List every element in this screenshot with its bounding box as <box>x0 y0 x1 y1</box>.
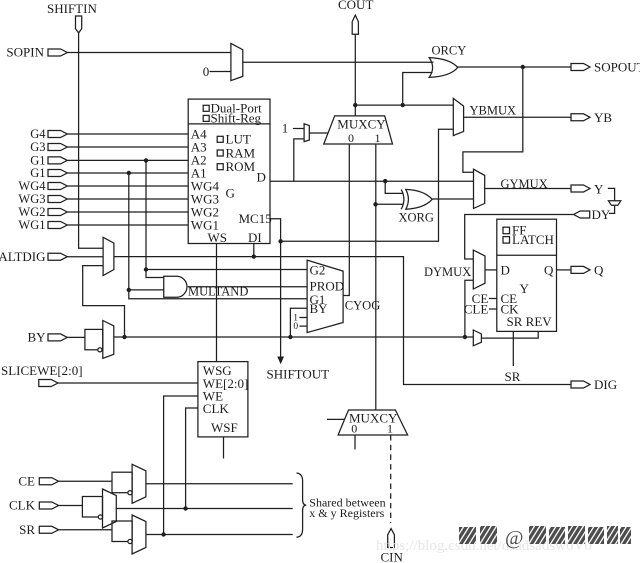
svg-text:GYMUX: GYMUX <box>501 177 548 191</box>
DY input arrow <box>574 211 590 218</box>
SOPOUT output arrow <box>571 64 590 71</box>
wire SOPIN to mux <box>67 52 231 54</box>
wire COUT to MUXCY <box>354 34 356 116</box>
bubble CE inverter <box>128 491 132 495</box>
wire G1 (A2 row) <box>67 159 188 161</box>
svg-text:ALTDIG: ALTDIG <box>0 249 46 264</box>
svg-text:CE: CE <box>18 473 35 488</box>
CIN input arrow <box>388 529 395 548</box>
wire WG3 <box>67 198 188 200</box>
wire BY to inverter box <box>67 336 85 338</box>
wire ORCY to SOPOUT <box>458 66 572 68</box>
wire SOPOUT node down to GYMUX top input <box>463 67 523 172</box>
wire CYOG BY input <box>290 308 307 337</box>
bracket Y to DY <box>608 188 615 200</box>
wire REV mux to register <box>481 331 538 338</box>
svg-text:G: G <box>226 186 235 201</box>
mux CE polarity <box>132 464 146 503</box>
checkbox LUT <box>217 136 223 142</box>
muxcy MUXCY lower <box>338 410 408 435</box>
stub MUXCY lower select <box>327 418 345 420</box>
svg-text:SHIFTIN: SHIFTIN <box>47 1 97 16</box>
inverter box CLK <box>82 497 102 518</box>
svg-text:WS: WS <box>208 230 228 245</box>
bubble SR inverter <box>128 539 132 543</box>
register Y box <box>497 219 557 331</box>
svg-text:G2: G2 <box>310 263 326 278</box>
stub CYOG select 0 <box>299 325 307 327</box>
wire Q output <box>557 269 572 271</box>
Y output arrow <box>571 185 590 192</box>
wire DYMUX to D input <box>485 269 497 271</box>
wire carry chain vertical <box>375 144 377 410</box>
wire D output of G <box>270 180 474 182</box>
divider in register box <box>497 254 557 256</box>
xor-gate XORG input arc <box>401 189 404 209</box>
svg-text:DIG: DIG <box>594 377 617 392</box>
wire SR shared line <box>146 534 293 536</box>
svg-text:@: @ <box>505 527 523 549</box>
wire SHIFTOUT vertical <box>280 241 282 356</box>
mux carry-select small <box>304 124 309 142</box>
svg-text:Q: Q <box>594 262 604 277</box>
svg-text:MC15: MC15 <box>239 211 272 226</box>
node BY loop tap <box>122 335 126 339</box>
stub MUXCY lower 0 input <box>354 435 356 449</box>
mux SOPIN/0 <box>231 43 243 80</box>
node CYOG BY tap <box>288 335 292 339</box>
svg-text:BY: BY <box>27 330 46 345</box>
checkbox LATCH <box>503 237 510 244</box>
svg-text:PROD: PROD <box>310 278 345 293</box>
buffer symbol in Y-DY bracket <box>608 201 620 206</box>
tick CE <box>489 298 497 300</box>
wire DIG line <box>114 257 571 385</box>
checkbox RAM <box>217 150 223 156</box>
watermark blocks dark <box>459 526 631 549</box>
ALTDIG input arrow <box>48 253 67 260</box>
inverter box CE <box>112 472 132 493</box>
node carry to XORG tap <box>373 202 377 206</box>
svg-text:SOPIN: SOPIN <box>6 45 44 60</box>
wire WE input from SR line <box>164 396 198 535</box>
wire YBMUX to YB <box>464 116 571 118</box>
CLK input arrow <box>39 502 58 509</box>
svg-text:1: 1 <box>375 131 381 145</box>
wire D tap to small mux <box>294 139 304 181</box>
WG1 input arrow <box>48 222 67 229</box>
mux SR polarity <box>132 515 146 554</box>
node DY/BY REV tap <box>463 335 467 339</box>
mux CLK polarity <box>103 489 117 528</box>
svg-text:G1: G1 <box>30 166 45 180</box>
wire BY line to REV mux <box>114 336 474 338</box>
mux BY polarity <box>103 321 114 359</box>
WG4 input arrow <box>48 183 67 190</box>
or-gate ORCY <box>429 58 458 78</box>
svg-text:0: 0 <box>348 131 354 145</box>
wire GYMUX to Y <box>485 188 571 190</box>
wire SLICEWE to WSG <box>58 382 198 384</box>
mux YBMUX <box>453 98 463 135</box>
G1 input arrow (A2 row) <box>48 157 67 164</box>
wire CE shared line <box>146 483 293 485</box>
node SOPOUT branch <box>521 65 525 69</box>
svg-text:CLE: CLE <box>464 301 489 316</box>
checkbox Dual-Port <box>203 105 209 111</box>
COUT output arrow <box>352 15 358 34</box>
inverter box SR <box>112 521 132 542</box>
mux REV small <box>473 330 481 346</box>
mux GYMUX <box>474 169 485 208</box>
G4 input arrow <box>48 131 67 138</box>
DIG output arrow <box>571 381 590 388</box>
bracket DY side <box>609 205 615 213</box>
wire WG4 <box>67 185 188 187</box>
wire G4 <box>67 133 188 135</box>
wire SR stub below register <box>512 331 514 366</box>
WG3 input arrow <box>48 196 67 203</box>
divider in G box <box>188 123 270 125</box>
SHIFTIN input arrow <box>76 16 82 33</box>
stub CYOG select 1 <box>299 317 307 319</box>
wire CLK input from CLK line <box>186 408 198 509</box>
wire G2 branch to MULTAND <box>146 270 164 278</box>
wire WS to WSG <box>216 244 218 362</box>
CE input arrow <box>39 478 58 485</box>
svg-text:CLK: CLK <box>9 498 36 513</box>
svg-text:SOPOUT: SOPOUT <box>594 60 640 75</box>
wire const 1 to small mux <box>293 128 304 130</box>
wsg WSG box <box>198 362 248 437</box>
svg-text:COUT: COUT <box>338 0 373 12</box>
svg-text:YBMUX: YBMUX <box>470 103 517 117</box>
svg-text:CYOG: CYOG <box>345 299 380 313</box>
node G1 line A2 tap <box>144 158 148 162</box>
svg-text:WG3: WG3 <box>18 192 45 206</box>
wire branch up to ORCY input <box>403 73 433 106</box>
node ORCY input tap <box>401 103 405 107</box>
Q output arrow <box>571 266 590 273</box>
wire G2 line to CYOG <box>146 160 307 269</box>
checkbox Shift-Reg <box>203 115 209 121</box>
mux ALTDIG/SHIFTIN/BY <box>103 237 114 275</box>
wire SHIFTIN to ALTDIG mux <box>79 33 104 248</box>
stub WSF <box>223 437 225 459</box>
node SR tap for WE <box>161 532 165 536</box>
arrowhead SHIFTOUT <box>277 357 284 365</box>
wire ALTDIG to mux <box>67 256 103 258</box>
wire BY loop to ALTDIG mux <box>83 266 125 337</box>
bubble CLK inverter <box>98 515 102 519</box>
wire XORG bottom input from carry <box>376 203 404 205</box>
wire MUXCY 0 input from CYOG <box>343 144 349 296</box>
svg-text:MUXCY: MUXCY <box>337 117 386 132</box>
mux DYMUX <box>473 250 485 289</box>
wire mux to ORCY <box>243 61 434 63</box>
wire G1 (A1 row) <box>67 172 188 174</box>
svg-text:BY: BY <box>310 301 329 316</box>
svg-text:D: D <box>257 170 266 185</box>
wire CE to inverter box <box>59 480 112 482</box>
svg-text:SR REV: SR REV <box>507 314 553 329</box>
node CLK tap <box>183 506 187 510</box>
wire BY/DY node to DYMUX bottom input <box>465 280 473 337</box>
SR input arrow <box>39 526 58 533</box>
wire MULTAND to CYOG PROD <box>188 286 307 288</box>
svg-text:DYMUX: DYMUX <box>424 265 471 279</box>
svg-text:SR: SR <box>505 369 521 384</box>
svg-text:WG4: WG4 <box>18 179 46 193</box>
brace shared-registers <box>297 473 307 537</box>
node G1 branch <box>127 288 131 292</box>
svg-text:WG1: WG1 <box>18 218 45 232</box>
SLICEWE input arrow <box>39 380 58 387</box>
xor-gate XORG <box>406 189 432 209</box>
svg-text:SLICEWE[2:0]: SLICEWE[2:0] <box>1 363 83 378</box>
svg-text:0: 0 <box>351 422 357 436</box>
svg-text:DI: DI <box>248 230 262 245</box>
wire XORG to GYMUX <box>432 198 473 200</box>
and-gate MULTAND <box>164 276 187 297</box>
node D to XORG tap <box>383 179 387 183</box>
svg-text:1: 1 <box>387 422 393 436</box>
svg-text:0: 0 <box>203 64 210 79</box>
svg-text:CLK: CLK <box>203 401 230 416</box>
SOPIN input arrow <box>48 49 67 56</box>
wire carry branch to YBMUX <box>355 104 453 106</box>
svg-text:D: D <box>501 262 510 277</box>
svg-text:WG2: WG2 <box>18 205 45 219</box>
WG2 input arrow <box>48 209 67 216</box>
muxcy MUXCY upper <box>324 116 393 144</box>
svg-text:XORG: XORG <box>399 211 434 225</box>
svg-text:Q: Q <box>544 262 554 277</box>
wire MC15 to YBMUX <box>270 129 453 241</box>
wire const 0 to SOPIN mux <box>210 71 231 73</box>
svg-text:x & y Registers: x & y Registers <box>309 506 384 520</box>
wire CLK shared line <box>116 508 292 510</box>
svg-text:ROM: ROM <box>226 159 256 174</box>
lut G box <box>188 99 270 243</box>
tick CK <box>489 308 497 310</box>
bubble BY inverter <box>98 348 102 352</box>
svg-text:Y: Y <box>520 281 530 296</box>
node G2 branch <box>144 267 148 271</box>
node MC15 SHIFTOUT branch <box>278 239 282 243</box>
BY input arrow <box>48 334 67 341</box>
wire CIN dashed <box>390 435 392 523</box>
mux CYOG <box>307 260 343 333</box>
node DI tap on DIG line <box>252 254 256 258</box>
wire CLK to inverter box <box>59 505 83 507</box>
svg-text:YB: YB <box>594 110 612 125</box>
G3 input arrow <box>48 144 67 151</box>
svg-text:G3: G3 <box>30 140 45 154</box>
svg-text:1: 1 <box>282 120 289 135</box>
svg-text:SR: SR <box>19 522 35 537</box>
svg-text:0: 0 <box>293 322 298 332</box>
svg-text:DY: DY <box>592 207 611 222</box>
wire XORG top input from D <box>385 181 403 193</box>
svg-text:G4: G4 <box>30 127 46 141</box>
wire WG2 <box>67 211 188 213</box>
svg-text:ORCY: ORCY <box>432 43 467 57</box>
node G1 line A1 tap <box>127 171 131 175</box>
wire small mux to MUXCY select <box>309 132 328 134</box>
wire DY to DYMUX <box>465 215 574 260</box>
wire G1 branch to MULTAND <box>129 289 164 291</box>
node COUT carry branch <box>353 103 357 107</box>
wire SR to inverter box <box>59 529 112 531</box>
svg-text:Shift-Reg: Shift-Reg <box>211 111 262 126</box>
wire G1 line down <box>129 173 307 299</box>
svg-text:SHIFTOUT: SHIFTOUT <box>267 367 330 382</box>
wire G3 <box>67 146 188 148</box>
svg-text:MULTAND: MULTAND <box>188 284 248 298</box>
checkbox ROM <box>217 164 223 170</box>
YB output arrow <box>571 114 590 121</box>
wire WG1 <box>67 224 188 226</box>
G1 input arrow (A1 row) <box>48 170 67 177</box>
svg-text:Y: Y <box>594 182 604 197</box>
svg-text:WSF: WSF <box>211 420 238 435</box>
svg-text:LATCH: LATCH <box>512 232 554 247</box>
inverter box BY <box>85 329 103 349</box>
wire DI stub <box>253 244 255 257</box>
checkbox FF <box>503 227 510 234</box>
